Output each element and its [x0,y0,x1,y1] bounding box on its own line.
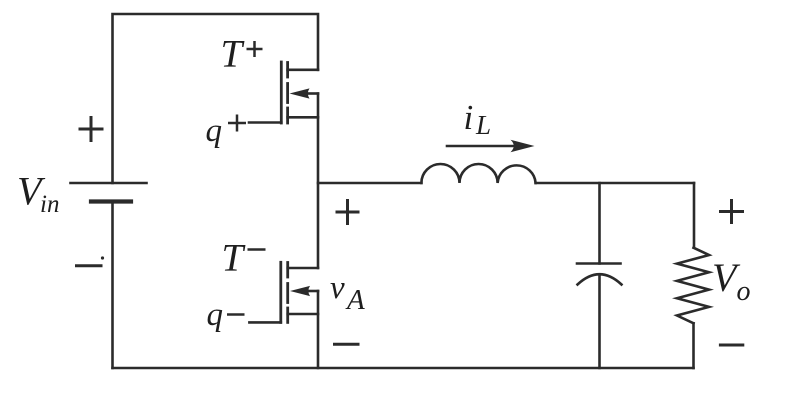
plus sign Vo [721,201,743,223]
wire resistor branch bottom [692,323,695,368]
wire top rail [113,14,319,183]
label Vin [17,168,59,218]
wire capacitor branch top [598,183,601,264]
transistor T+ body arrow [290,88,319,98]
wire inductor to output node [536,182,694,185]
svg-text:in: in [40,191,59,218]
transistor T- gate bar [279,262,282,322]
svg-text:o: o [737,276,751,307]
transistor T+ gate bar [280,62,283,123]
svg-text:T: T [222,237,246,280]
wire node A vertical [317,94,320,269]
stray dot mark [101,256,104,259]
capacitor top plate [577,262,621,265]
wire bottom rail [113,367,694,370]
transistor T+ channel dashes [286,63,289,124]
capacitor curved plate [578,274,622,284]
transistor T+ source lead [288,116,318,119]
voltage source Vin top plate [71,182,147,185]
minus sign Vo [720,344,742,347]
transistor T+ gate lead [249,121,281,124]
wire left rail bottom [111,202,114,369]
plus sign Vin [80,118,102,141]
resistor R load [677,248,709,324]
transistor T- gate lead [249,321,280,324]
wire T- source to bottom rail [317,291,320,368]
wire capacitor branch bottom [598,275,601,369]
svg-text:i: i [464,98,474,137]
label iL [464,98,492,140]
svg-text:q: q [207,297,224,333]
transistor T- drain lead [288,267,318,270]
inductor L [421,164,535,183]
label vA [330,270,365,316]
label T- [222,237,266,280]
transistor T+ drain lead [288,69,318,72]
current arrow iL [447,140,535,152]
label T+ [221,33,263,76]
label q+ [206,113,247,149]
plus sign node A [337,201,358,224]
voltage source Vin bottom plate [91,199,131,203]
transistor T- source lead [288,313,318,316]
wire resistor branch top [693,183,696,248]
label Vo [712,255,751,307]
transistor T- channel dashes [286,263,289,323]
transistor T- body arrow [290,286,318,296]
svg-text:q: q [206,113,223,149]
label q- [207,297,245,333]
svg-text:L: L [475,110,491,140]
svg-text:A: A [345,284,365,316]
minus sign node A [335,343,359,346]
minus sign Vin [77,264,102,267]
wire node A to inductor [318,182,421,185]
svg-text:T: T [221,33,245,76]
svg-text:v: v [330,270,345,306]
